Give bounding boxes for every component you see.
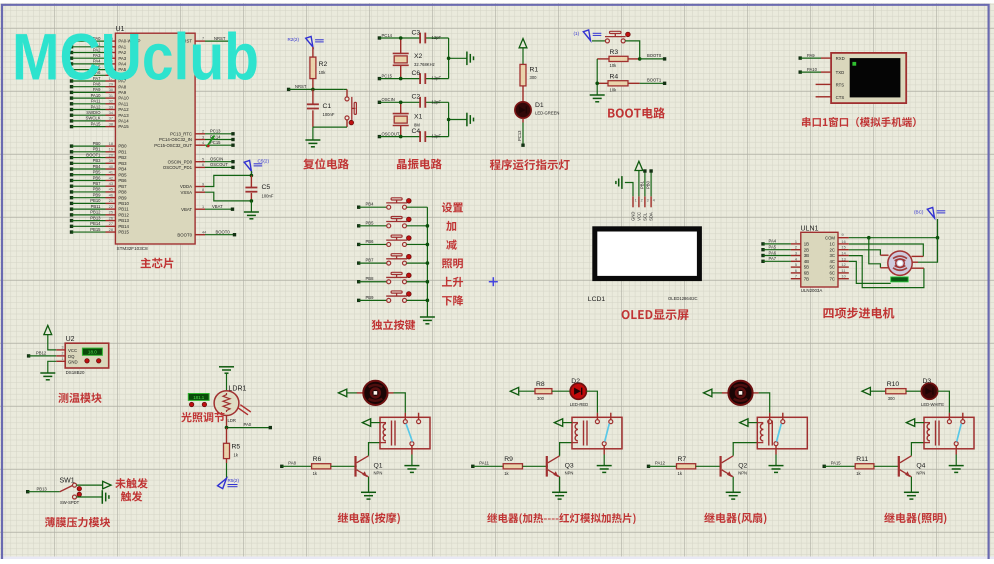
push button PB5 bbox=[357, 216, 427, 227]
svg-text:PB8: PB8 bbox=[366, 276, 375, 281]
svg-text:PB7: PB7 bbox=[118, 184, 127, 189]
wire net PA7 (U1 pin 17) bbox=[70, 76, 127, 84]
svg-text:SW1: SW1 bbox=[60, 478, 75, 485]
svg-text:PA0: PA0 bbox=[244, 422, 252, 427]
svg-text:2: 2 bbox=[202, 130, 204, 134]
svg-text:PB9: PB9 bbox=[366, 295, 375, 300]
relay body bbox=[757, 413, 807, 455]
photoresistor LDR1 bbox=[214, 386, 251, 423]
svg-text:R10: R10 bbox=[887, 381, 900, 388]
probe C5(2) bbox=[244, 159, 269, 176]
svg-text:3C: 3C bbox=[830, 253, 836, 258]
relay body bbox=[572, 413, 622, 455]
svg-text:2: 2 bbox=[795, 246, 797, 250]
svg-text:PA4: PA4 bbox=[769, 239, 777, 244]
svg-text:GND: GND bbox=[631, 212, 636, 221]
wire net PC13 below D1 bbox=[517, 118, 525, 147]
wire net PA10 (U1 pin 31) bbox=[70, 93, 129, 101]
svg-text:4: 4 bbox=[653, 199, 655, 203]
node VDDA junction bbox=[250, 174, 254, 178]
svg-text:28: 28 bbox=[109, 228, 113, 232]
svg-text:5B: 5B bbox=[804, 265, 809, 270]
svg-text:PB8: PB8 bbox=[93, 187, 102, 192]
ULN1 output pin 15 (2C) bbox=[830, 246, 849, 253]
wire net PB13 (U1 pin 26) bbox=[70, 215, 130, 223]
svg-text:10k: 10k bbox=[610, 88, 618, 93]
stepper motor green display bbox=[891, 277, 909, 282]
svg-text:9: 9 bbox=[202, 182, 204, 186]
node button rail junction 3 bbox=[426, 261, 430, 265]
wire net PB1 (U1 pin 19) bbox=[70, 147, 127, 155]
svg-text:BOOT0: BOOT0 bbox=[177, 232, 192, 237]
svg-text:43: 43 bbox=[109, 182, 113, 186]
power arrow for motor bbox=[338, 389, 357, 397]
wire net PA10 to TXD bbox=[799, 67, 832, 74]
wire 4C to motor bottom bbox=[849, 261, 891, 283]
wire net PB15 (U1 pin 28) bbox=[70, 227, 130, 235]
svg-text:PB1: PB1 bbox=[93, 147, 102, 152]
op-amp U2 (DS18B20 temperature module body) bbox=[62, 336, 109, 375]
svg-text:22: 22 bbox=[109, 205, 113, 209]
probe R5(2) tag bbox=[218, 478, 240, 489]
probe (1) tag bbox=[574, 30, 602, 41]
op-amp ULN1 (ULN2003A driver body) bbox=[801, 226, 839, 294]
wire 1C to motor right-top bbox=[849, 244, 924, 256]
wire net OSCIN (crystal X1 top) bbox=[378, 97, 449, 104]
svg-text:PB0: PB0 bbox=[118, 144, 127, 149]
power arrow for R10 bbox=[862, 387, 886, 395]
svg-text:1: 1 bbox=[62, 357, 64, 361]
svg-text:12pF: 12pF bbox=[432, 76, 442, 81]
wire VSSA (U1 pin 8) to C5 bottom node bbox=[181, 188, 252, 201]
wire collector of Q3 to relay coil bbox=[560, 443, 572, 456]
wire C1 bottom to button bottom bbox=[313, 126, 347, 128]
wire net PC15 (crystal X2 bottom) bbox=[378, 73, 449, 80]
svg-text:BOOT1: BOOT1 bbox=[647, 78, 662, 83]
svg-text:12: 12 bbox=[842, 263, 846, 267]
svg-text:PB6: PB6 bbox=[93, 175, 102, 180]
svg-text:PB0: PB0 bbox=[93, 141, 102, 146]
resistor R1 bbox=[520, 64, 538, 102]
label 继电器(风扇) bbox=[704, 513, 766, 525]
ground of Q1 emitter bbox=[361, 477, 376, 499]
svg-text:PA9: PA9 bbox=[807, 53, 815, 58]
resistor R9 bbox=[503, 456, 522, 476]
svg-text:PC13_RTC: PC13_RTC bbox=[170, 131, 192, 136]
wire R9 to base bbox=[523, 465, 548, 467]
svg-text:C5(2): C5(2) bbox=[258, 159, 270, 164]
ULN1 output pin 10 (7C) bbox=[830, 275, 849, 282]
svg-text:LED-GREEN: LED-GREEN bbox=[535, 111, 559, 116]
svg-text:25: 25 bbox=[109, 211, 113, 215]
wire net PB0 (U1 pin 18) bbox=[70, 141, 127, 149]
wire collector of Q4 to relay coil bbox=[911, 443, 924, 456]
svg-text:PA15: PA15 bbox=[91, 121, 102, 126]
wire net PB1 to OLED SCL bbox=[640, 169, 647, 207]
relay body bbox=[380, 413, 430, 455]
push button PB6 bbox=[357, 235, 427, 246]
transistor Q2 NPN bbox=[721, 456, 748, 477]
wire net PA6 (U1 pin 16) bbox=[70, 70, 127, 78]
node button rail junction 2 bbox=[426, 243, 430, 247]
svg-text:SDA: SDA bbox=[649, 212, 654, 221]
wire net PA11 to R9 bbox=[471, 461, 503, 469]
ULN1 output pin 16 (1C) bbox=[830, 240, 849, 247]
power arrow for U2 VCC bbox=[44, 325, 65, 350]
node VSSA junction bbox=[250, 199, 254, 203]
label 未触发 bbox=[115, 478, 148, 488]
label OLED显示屏 bbox=[622, 309, 689, 320]
ground of U2 bbox=[40, 361, 65, 380]
resistor R11 bbox=[855, 456, 874, 476]
svg-text:PB4: PB4 bbox=[118, 167, 127, 172]
svg-text:PB6: PB6 bbox=[366, 239, 375, 244]
wire net OSCOUT (U1 pin 6) bbox=[163, 162, 235, 170]
label 薄膜压力模块 bbox=[45, 517, 110, 527]
ground of relay contact bbox=[769, 455, 784, 473]
svg-text:LDR: LDR bbox=[228, 418, 236, 423]
resistor R5 bbox=[224, 428, 241, 479]
relay body bbox=[924, 413, 974, 455]
svg-text:LED-RED: LED-RED bbox=[570, 402, 588, 407]
svg-text:3: 3 bbox=[202, 135, 204, 139]
svg-text:PB13: PB13 bbox=[118, 218, 129, 223]
svg-text:C3: C3 bbox=[412, 30, 421, 37]
svg-text:6: 6 bbox=[202, 163, 204, 167]
wire net PB6 (U1 pin 42) bbox=[70, 175, 127, 183]
svg-text:(BC): (BC) bbox=[914, 210, 924, 215]
ground below C5 bbox=[244, 201, 259, 219]
wire net PA12 (U1 pin 33) bbox=[70, 104, 129, 112]
stepper motor M1 bbox=[880, 251, 924, 275]
wire net PB11 (U1 pin 22) bbox=[70, 204, 129, 212]
wire button to BOOT0 node bbox=[625, 41, 640, 59]
wire net PA4 (U1 pin 14) bbox=[70, 59, 127, 67]
node button rail junction 1 bbox=[426, 224, 430, 228]
wire net PB0 to OLED SDA bbox=[646, 169, 653, 207]
svg-text:GND: GND bbox=[68, 359, 78, 364]
svg-text:3: 3 bbox=[795, 252, 797, 256]
svg-text:PA12: PA12 bbox=[91, 104, 102, 109]
push button PB7 bbox=[357, 254, 427, 265]
svg-text:4: 4 bbox=[202, 141, 204, 145]
svg-text:OLED12864I2C: OLED12864I2C bbox=[668, 296, 698, 301]
svg-text:PA8: PA8 bbox=[288, 461, 296, 466]
svg-text:PB11: PB11 bbox=[91, 204, 102, 209]
capacitor C5 bbox=[245, 175, 273, 201]
ULN1 output pin 13 (4C) bbox=[830, 257, 849, 264]
svg-text:PB6: PB6 bbox=[118, 178, 127, 183]
svg-text:R3: R3 bbox=[610, 49, 619, 56]
label 光照调节 bbox=[181, 412, 224, 422]
ULN1 output pin 12 (5C) bbox=[830, 263, 849, 270]
wire net PB5 (U1 pin 41) bbox=[70, 170, 127, 178]
wire D2 to relay common bbox=[586, 391, 597, 413]
svg-text:300: 300 bbox=[530, 75, 538, 80]
svg-text:PB14: PB14 bbox=[118, 224, 129, 229]
svg-text:45: 45 bbox=[109, 188, 113, 192]
svg-text:100nF: 100nF bbox=[323, 112, 335, 117]
label 程序运行指示灯 bbox=[490, 159, 570, 170]
label 独立按键 bbox=[372, 320, 416, 331]
svg-text:ULN2003A: ULN2003A bbox=[801, 288, 823, 293]
svg-text:10: 10 bbox=[842, 275, 846, 279]
svg-text:PA12: PA12 bbox=[655, 461, 666, 466]
wire net PA5 to ULN1 bbox=[761, 245, 791, 252]
svg-text:RXD: RXD bbox=[836, 56, 845, 61]
wire R7 to base bbox=[696, 465, 722, 467]
svg-text:1: 1 bbox=[795, 240, 797, 244]
crystal X2 bbox=[393, 38, 435, 79]
svg-text:CTS: CTS bbox=[836, 95, 845, 100]
svg-text:32.768KHz: 32.768KHz bbox=[414, 62, 435, 67]
wire COM tap to motor left-bottom bbox=[869, 238, 881, 268]
svg-text:OSCOUT_PD1: OSCOUT_PD1 bbox=[163, 165, 193, 170]
label 主芯片 bbox=[141, 258, 174, 269]
svg-text:OSCIN: OSCIN bbox=[382, 97, 395, 102]
svg-text:39: 39 bbox=[109, 159, 113, 163]
svg-text:MCUclub: MCUclub bbox=[12, 20, 259, 94]
power arrow for OLED VCC bbox=[635, 161, 643, 207]
capacitor C2 bbox=[412, 94, 442, 108]
label 复位电路 bbox=[303, 158, 349, 169]
svg-text:16: 16 bbox=[842, 240, 846, 244]
wire net NRST (U1 pin 7) bbox=[180, 36, 234, 44]
ground of relay contact bbox=[949, 455, 964, 473]
diode D3 LED-WHITE bbox=[906, 378, 944, 407]
label 测温模块 bbox=[58, 393, 101, 403]
svg-text:PB4: PB4 bbox=[366, 202, 375, 207]
svg-text:OSCOUT: OSCOUT bbox=[210, 162, 228, 167]
svg-text:TXD: TXD bbox=[836, 70, 845, 75]
svg-text:X1: X1 bbox=[414, 114, 423, 121]
svg-text:20: 20 bbox=[109, 153, 113, 157]
power arrow right (SW1 NC throw) bbox=[77, 481, 112, 489]
wire net PB7 (U1 pin 43) bbox=[70, 181, 127, 189]
transistor Q4 NPN bbox=[899, 456, 926, 477]
label 晶振电路 bbox=[397, 159, 442, 170]
probe (BC) power tag bbox=[914, 207, 945, 218]
svg-text:PC13: PC13 bbox=[517, 130, 522, 141]
wire net PA4 to ULN1 bbox=[761, 239, 791, 246]
wire motor to relay common bbox=[759, 393, 770, 413]
svg-text:PB0: PB0 bbox=[646, 180, 651, 189]
wire VDDA (U1 pin 9) to C5 top node bbox=[180, 175, 251, 189]
wire net PC14 (crystal X2 top) bbox=[378, 33, 449, 40]
svg-text:11: 11 bbox=[842, 269, 846, 273]
resistor R2 bbox=[310, 47, 328, 89]
svg-text:PB9: PB9 bbox=[118, 195, 127, 200]
svg-text:SWDIO: SWDIO bbox=[86, 110, 101, 115]
svg-text:PB2: PB2 bbox=[118, 155, 127, 160]
svg-text:PB7: PB7 bbox=[366, 258, 375, 263]
svg-text:PB1: PB1 bbox=[640, 180, 645, 189]
capacitor C4 bbox=[412, 128, 442, 142]
ULN1 input pin 7 (7B) bbox=[791, 275, 809, 282]
label BOOT电路 bbox=[608, 107, 665, 118]
wire net BOOT1 to terminal bbox=[640, 78, 667, 85]
ULN1 input pin 1 (1B) bbox=[791, 240, 809, 247]
wire net PA7 to ULN1 bbox=[761, 256, 791, 263]
svg-text:SW-SPDT: SW-SPDT bbox=[60, 500, 80, 505]
ULN1 output pin 14 (3C) bbox=[830, 252, 849, 259]
push button PB4 bbox=[357, 198, 427, 209]
svg-text:PA14: PA14 bbox=[118, 119, 129, 124]
svg-text:R2: R2 bbox=[319, 61, 328, 68]
wire net PA5 (U1 pin 15) bbox=[70, 64, 127, 72]
wire net SWCLK (U1 pin 37) bbox=[70, 116, 129, 124]
svg-text:R1: R1 bbox=[530, 67, 539, 74]
svg-text:DS18B20: DS18B20 bbox=[66, 370, 85, 375]
svg-text:PA10: PA10 bbox=[118, 96, 129, 101]
power arrow for relay coil bbox=[740, 419, 758, 427]
svg-text:D2: D2 bbox=[571, 378, 580, 385]
svg-text:2C: 2C bbox=[830, 247, 836, 252]
label 继电器(按摩) bbox=[338, 513, 400, 525]
wire net PA8 (U1 pin 29) bbox=[70, 82, 127, 90]
node R4 left junction bbox=[595, 82, 599, 86]
push button BOOT (horizontal) bbox=[592, 31, 630, 43]
svg-text:PA15: PA15 bbox=[118, 124, 129, 129]
node X2 junctions bbox=[399, 36, 451, 80]
svg-text:12pF: 12pF bbox=[432, 35, 442, 40]
svg-text:NPN: NPN bbox=[916, 470, 925, 475]
label 继电器(照明) bbox=[884, 513, 946, 525]
svg-text:PB10: PB10 bbox=[90, 198, 101, 203]
ground of Q3 emitter bbox=[552, 477, 567, 499]
svg-text:PA6: PA6 bbox=[769, 250, 777, 255]
wire net PB14 (U1 pin 27) bbox=[70, 221, 130, 229]
ground of BOOT circuit bbox=[590, 95, 605, 102]
wire net PB12 to U2 DQ bbox=[27, 351, 65, 358]
svg-text:37: 37 bbox=[109, 117, 113, 121]
node COM junction 2 bbox=[936, 236, 940, 240]
node BOOT0 junction bbox=[638, 57, 642, 61]
svg-text:1B: 1B bbox=[804, 242, 809, 247]
wire net PA12 to R7 bbox=[647, 461, 677, 469]
svg-text:PB14: PB14 bbox=[90, 221, 101, 226]
resistor R10 bbox=[886, 381, 906, 401]
svg-text:BOOT0: BOOT0 bbox=[647, 53, 662, 58]
label 照明 bbox=[442, 258, 463, 268]
power arrow for R1 bbox=[519, 39, 527, 65]
svg-text:SWCLK: SWCLK bbox=[86, 116, 101, 121]
wire collector of Q1 to relay coil bbox=[369, 443, 381, 456]
svg-text:SCL: SCL bbox=[643, 212, 648, 221]
wire net PA9 to RXD bbox=[799, 53, 832, 60]
transistor Q1 NPN bbox=[356, 456, 383, 477]
push button PB9 bbox=[357, 291, 427, 302]
svg-text:PB15: PB15 bbox=[90, 227, 101, 232]
svg-text:PB12: PB12 bbox=[36, 351, 47, 356]
svg-text:2: 2 bbox=[62, 352, 64, 356]
svg-text:42: 42 bbox=[109, 176, 113, 180]
wire net PA1 (U1 pin 11) bbox=[70, 42, 127, 50]
wire OLED GND pin to ground bbox=[616, 176, 633, 207]
svg-text:19: 19 bbox=[109, 148, 113, 152]
svg-text:10k: 10k bbox=[610, 63, 618, 68]
svg-text:PB10: PB10 bbox=[118, 201, 129, 206]
svg-text:R9: R9 bbox=[504, 456, 513, 463]
svg-text:PB9: PB9 bbox=[93, 192, 102, 197]
wire net BOOT0 to terminal bbox=[640, 53, 667, 60]
wire collector of Q2 to relay coil bbox=[733, 443, 757, 456]
svg-text:OSCOUT: OSCOUT bbox=[382, 131, 400, 136]
svg-text:40: 40 bbox=[109, 165, 113, 169]
wire 3C to motor right-bottom (bottom loop) bbox=[849, 256, 924, 288]
svg-text:PB11: PB11 bbox=[118, 207, 129, 212]
MCUclub watermark logo bbox=[12, 20, 259, 94]
wire net PB10 (U1 pin 21) bbox=[70, 198, 130, 206]
svg-text:C5: C5 bbox=[262, 184, 271, 191]
svg-text:PA7: PA7 bbox=[769, 256, 777, 261]
ULN1 input pin 6 (6B) bbox=[791, 269, 809, 276]
svg-text:PB7: PB7 bbox=[93, 181, 102, 186]
svg-text:R5(2): R5(2) bbox=[228, 478, 240, 483]
svg-text:R11: R11 bbox=[856, 456, 868, 463]
OLED pin numbers and names bbox=[631, 199, 655, 221]
capacitor C3 bbox=[412, 30, 442, 44]
svg-text:13: 13 bbox=[842, 257, 846, 261]
DC motor bbox=[357, 381, 394, 405]
svg-text:PB8: PB8 bbox=[118, 190, 127, 195]
label 设置 bbox=[442, 202, 463, 212]
svg-text:PB1: PB1 bbox=[118, 149, 127, 154]
svg-text:C4: C4 bbox=[412, 128, 421, 135]
wire left rail R3/R4 bbox=[596, 59, 598, 95]
svg-text:PB12: PB12 bbox=[118, 212, 129, 217]
wire net PA0 from LDR divider bbox=[227, 416, 273, 430]
capacitor C1 bbox=[307, 89, 335, 127]
wire net PB9 (U1 pin 46) bbox=[70, 192, 127, 200]
svg-text:PA11: PA11 bbox=[118, 101, 128, 106]
svg-text:100nF: 100nF bbox=[262, 194, 274, 199]
svg-text:46: 46 bbox=[109, 193, 113, 197]
ground of relay contact bbox=[597, 455, 612, 473]
wire R11 to base bbox=[874, 465, 900, 467]
svg-text:D3: D3 bbox=[923, 378, 932, 385]
node NRST junction at R2/C1 bbox=[311, 88, 315, 92]
svg-text:34: 34 bbox=[109, 111, 113, 115]
svg-text:U2: U2 bbox=[66, 336, 75, 343]
svg-text:4B: 4B bbox=[804, 259, 809, 264]
svg-text:OSCIN: OSCIN bbox=[210, 157, 223, 162]
svg-text:4: 4 bbox=[795, 257, 797, 261]
svg-text:9: 9 bbox=[842, 233, 844, 237]
svg-text:181.1: 181.1 bbox=[193, 395, 205, 400]
svg-text:6: 6 bbox=[795, 269, 797, 273]
wire net PC13 (U1 pin 2) bbox=[170, 129, 235, 137]
wire net PC14 (U1 pin 3) bbox=[159, 134, 235, 142]
svg-text:PA10: PA10 bbox=[91, 93, 102, 98]
capacitor C6 bbox=[412, 70, 442, 84]
resistor R8 bbox=[535, 381, 552, 401]
svg-text:R5: R5 bbox=[232, 444, 241, 451]
svg-text:33: 33 bbox=[109, 105, 113, 109]
wire net PA6 to ULN1 bbox=[761, 250, 791, 257]
svg-text:5: 5 bbox=[202, 158, 204, 162]
svg-text:18.0: 18.0 bbox=[88, 350, 97, 355]
wire net PA9 (U1 pin 30) bbox=[70, 87, 127, 95]
ULN1 output pin 11 (6C) bbox=[830, 269, 849, 276]
svg-text:OSCIN_PD0: OSCIN_PD0 bbox=[168, 159, 193, 164]
wire R6 to base bbox=[331, 465, 357, 467]
svg-text:PC14: PC14 bbox=[382, 33, 393, 38]
svg-text:4C: 4C bbox=[830, 259, 836, 264]
svg-text:3: 3 bbox=[62, 346, 64, 350]
svg-text:NRST: NRST bbox=[295, 84, 307, 89]
ULN1 COM pin 9 bbox=[825, 233, 849, 240]
